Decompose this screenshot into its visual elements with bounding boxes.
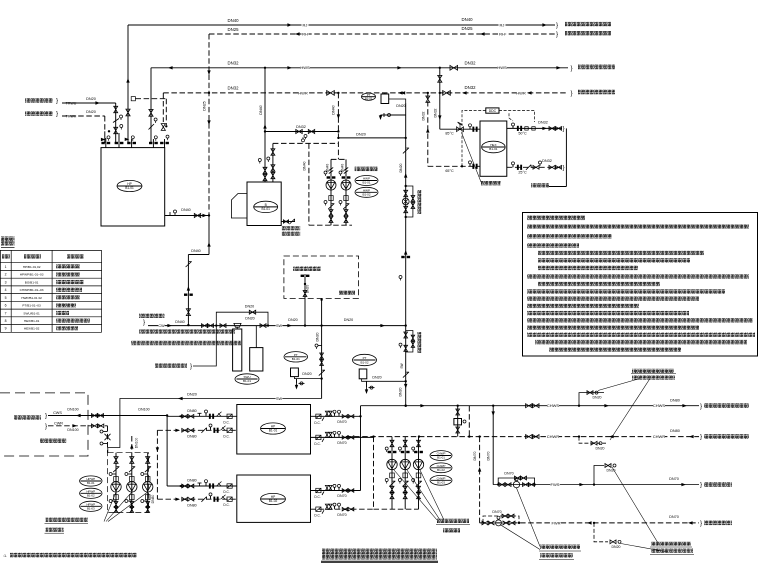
boiler supply riser x=265 from HWS — [264, 68, 266, 182]
svg-text:B1-01: B1-01 — [292, 357, 300, 361]
expansion tank PT/B1-03 at HWR — [362, 93, 376, 100]
expansion tank PT/B1-01 — [284, 352, 308, 362]
notes line 7 — [527, 274, 749, 278]
svg-text:DN100: DN100 — [67, 428, 78, 432]
svg-text:DN32: DN32 — [434, 108, 438, 117]
equipment vacuum gas boiler B/B1-01 box2 — [247, 182, 281, 226]
make-up down leg x=209 solid to DN40 elbow — [208, 216, 210, 255]
inlet label TRWU domestic hot water — [25, 98, 53, 103]
svg-text:50°C: 50°C — [518, 132, 527, 136]
svg-text:DN80: DN80 — [670, 429, 680, 433]
svg-text:DN70: DN70 — [337, 420, 346, 424]
svg-text:HEX/B1-01: HEX/B1-01 — [24, 319, 40, 323]
svg-text:D.C.: D.C. — [223, 420, 229, 424]
softener bypass DN20 — [216, 312, 268, 325]
riser x=440.6 HWS to HEX — [439, 68, 441, 129]
svg-text:4: 4 — [5, 288, 7, 292]
notes line 8 — [538, 282, 660, 286]
svg-text:DN32: DN32 — [228, 61, 240, 66]
pipe CWS to ground loop y=415.5 — [48, 415, 167, 417]
unions at box1 inlet nozzles y=143 — [101, 142, 104, 144]
valve stack column x=151 fittings — [149, 109, 153, 116]
HPWP pump group dashed enclosure — [108, 453, 149, 513]
water softener SWU/B1-01 — [220, 324, 226, 328]
notes line 16 — [535, 340, 747, 344]
ground source room dashed boundary — [0, 393, 88, 456]
bypass valve group DN15 y330-352 — [404, 332, 408, 338]
label drain electric valve + leaders — [632, 369, 674, 373]
riser x=128 from RJ — [127, 25, 129, 143]
notes line 5 — [538, 258, 690, 262]
svg-text:}: } — [700, 403, 702, 410]
notes line 4 — [538, 251, 704, 255]
boiler drain to sewer — [281, 221, 295, 223]
HP return riser DN80 dashed x=157.4 — [156, 430, 158, 499]
FWS pump bypass DN70 — [498, 478, 534, 485]
svg-text:DN25: DN25 — [462, 26, 474, 31]
drawing title HVAC cold/heat source system schematic — [322, 549, 437, 560]
svg-text:}: } — [45, 423, 47, 430]
svg-text:DN40: DN40 — [303, 161, 307, 170]
svg-text:CHWR: CHWR — [547, 434, 560, 439]
svg-text:DN20: DN20 — [372, 375, 381, 379]
svg-text:DN20: DN20 — [86, 110, 96, 114]
svg-text:DN70: DN70 — [669, 477, 679, 481]
pipe RJ supply DN40 y=25 — [128, 24, 555, 26]
notes line 3 — [527, 243, 579, 247]
svg-text:85°C: 85°C — [445, 132, 454, 136]
svg-text:DN40: DN40 — [259, 105, 263, 114]
pipe FWS y=484.6 — [493, 484, 699, 486]
HP1 condenser-side outlet pipe — [311, 415, 361, 417]
svg-text:HWR: HWR — [516, 90, 526, 95]
svg-text:8: 8 — [5, 319, 7, 323]
svg-text:DN70: DN70 — [492, 510, 501, 514]
boiler return drop x=338.4 dashed DN40 — [337, 93, 339, 159]
notes line 11 — [527, 304, 639, 308]
pump tags CHWP/B1-01~03 — [430, 451, 452, 461]
city water inlet CW y=325.6 — [139, 314, 165, 318]
expansion tank PT/B1-02 — [353, 354, 377, 365]
svg-text:DN70: DN70 — [504, 472, 513, 476]
HP2 evaporator-side outlet pipe dashed — [157, 498, 236, 500]
svg-text:DN70: DN70 — [473, 451, 477, 460]
svg-text:DN100: DN100 — [135, 438, 139, 449]
water treatment note text lines — [139, 329, 235, 333]
svg-text:DN20: DN20 — [399, 387, 403, 396]
svg-text:DN80: DN80 — [670, 399, 680, 403]
svg-text:SW: SW — [400, 362, 404, 368]
pipe HWS supply DN32 y=67.8 — [151, 67, 568, 69]
svg-text:B1-01: B1-01 — [261, 207, 270, 211]
svg-text:BG/B1-01: BG/B1-01 — [25, 280, 39, 284]
svg-text:B1-02: B1-02 — [87, 493, 95, 497]
svg-text:HWP/B1-01 02: HWP/B1-01 02 — [21, 296, 42, 300]
PT-01 outlet to riser — [295, 377, 322, 379]
svg-text:B1-02: B1-02 — [362, 192, 370, 196]
svg-text:RJ: RJ — [500, 22, 505, 27]
equipment heat-pump unit HP/B1-01,02 box1 — [101, 148, 165, 226]
svg-text:DN80: DN80 — [187, 435, 196, 439]
svg-text:}: } — [56, 111, 58, 118]
CWR drop with filter to pump suction x=107.5 — [107, 426, 109, 453]
boiler return dashed header y=143.4 — [273, 142, 339, 144]
svg-text:B1-01: B1-01 — [125, 186, 134, 190]
equipment heat pump HP/B1-02 box — [237, 475, 311, 522]
CWR feed dashed stub DN100 into pump box — [131, 436, 133, 453]
svg-text:B1-01: B1-01 — [437, 456, 445, 460]
svg-text:DN100: DN100 — [67, 408, 78, 412]
heater drop pipe x=305 — [304, 274, 306, 326]
svg-text:DN70: DN70 — [669, 515, 679, 519]
junction with SW line — [405, 324, 407, 326]
FWR pump bypass DN70 dashed — [483, 516, 519, 523]
svg-text:DN80: DN80 — [187, 409, 196, 413]
city water branch riser x=188.4 with check valve — [187, 255, 189, 326]
pipe CHWR trunk y=436.6 dashed — [346, 436, 699, 438]
svg-text:D.C.: D.C. — [314, 514, 320, 518]
bypass valve group DN25 y186-217 — [405, 185, 407, 187]
svg-text:B1-03: B1-03 — [87, 506, 95, 510]
svg-text:D.C.: D.C. — [314, 421, 320, 425]
svg-text:B1-01: B1-01 — [489, 147, 498, 151]
FWS drain bypass DN20 — [594, 466, 604, 485]
svg-text:DN32: DN32 — [542, 159, 552, 163]
svg-text:}: } — [45, 413, 47, 420]
notes line 9 — [527, 289, 725, 293]
svg-text:D.C.: D.C. — [223, 503, 229, 507]
svg-text:DN80: DN80 — [151, 495, 155, 504]
svg-text:}: } — [563, 164, 565, 171]
svg-text:DN32: DN32 — [421, 111, 425, 120]
HP1 condenser-side return pipe dashed — [311, 436, 374, 438]
riser x=321.6 SW drop — [321, 300, 323, 399]
CHWS drain bypass DN20 — [579, 393, 604, 406]
legend title tu-li — [1, 237, 15, 246]
svg-text:SW: SW — [276, 324, 283, 328]
svg-text:B1-01: B1-01 — [362, 181, 370, 185]
box1 right outlet pipe to make-up junction y=215.5 — [165, 215, 209, 217]
svg-text:CHWS: CHWS — [653, 403, 666, 408]
svg-text:DN70: DN70 — [487, 451, 491, 460]
notes line 15 — [527, 333, 755, 337]
svg-text:DN20: DN20 — [245, 317, 254, 321]
svg-text:DN32: DN32 — [538, 121, 548, 125]
svg-text:}: } — [563, 126, 565, 133]
HPWP pump columns x3 — [115, 453, 117, 513]
inlet label TRWH — [25, 111, 53, 116]
svg-text:RH: RH — [499, 31, 505, 36]
svg-text:DN20: DN20 — [315, 332, 319, 341]
svg-text:HWR: HWR — [298, 90, 308, 95]
svg-text:65°C: 65°C — [445, 169, 454, 173]
HP2 condenser-side return pipe dashed — [311, 508, 374, 510]
pump tags HWP/B1-01 HWP/B1-02 — [355, 167, 378, 172]
svg-text:CWS: CWS — [53, 411, 62, 415]
svg-text:D.C.: D.C. — [223, 434, 229, 438]
branch from living-water make-up — [155, 363, 187, 367]
svg-text:B1-03: B1-03 — [437, 480, 445, 484]
svg-text:DN70: DN70 — [337, 513, 346, 517]
svg-text:7: 7 — [5, 311, 7, 315]
HP1 evaporator-side outlet pipe dashed — [157, 429, 236, 431]
pipe HWR return DN32 y=92.9 dashed — [163, 92, 568, 94]
HEX hot return dashed y=166.3 65C — [428, 165, 480, 167]
svg-text:6: 6 — [5, 304, 7, 308]
chilled water pumps CHWP 3 columns — [391, 438, 393, 510]
fresh air unit electric heater dashed box — [284, 256, 359, 298]
svg-text:}: } — [571, 65, 573, 72]
boiler bypass line DN32 y=131.5 — [265, 131, 338, 133]
svg-text:D.C.: D.C. — [314, 495, 320, 499]
svg-text:B1-01: B1-01 — [269, 429, 278, 433]
FWR drain bypass DN20 dashed — [594, 523, 608, 542]
svg-text:}: } — [143, 319, 145, 326]
HP2 condenser-side outlet pipe — [311, 490, 361, 492]
svg-text:CW: CW — [158, 324, 165, 328]
svg-text:B1-02: B1-02 — [360, 360, 368, 364]
svg-text:DN80: DN80 — [187, 479, 196, 483]
svg-text:DN20: DN20 — [86, 97, 96, 101]
svg-text:DN20: DN20 — [396, 104, 405, 108]
svg-text:DN40: DN40 — [228, 18, 240, 23]
valve stack column x=115.7 (TRWU) — [115, 103, 117, 143]
svg-text:DN20: DN20 — [344, 318, 353, 322]
svg-text:SW: SW — [276, 397, 283, 401]
make-up riser DN25 dashed x=209 — [208, 34, 210, 216]
riser x=427.8 HWR branch dashed — [427, 93, 429, 166]
svg-text:DN20: DN20 — [302, 372, 311, 376]
svg-text:RH: RH — [302, 31, 308, 36]
pump tags HPWP/B1-01~03 — [80, 476, 102, 486]
svg-text:B1-01: B1-01 — [87, 481, 95, 485]
svg-text:25°C: 25°C — [518, 170, 527, 174]
svg-text:TRWU: TRWU — [66, 102, 77, 106]
svg-text:3: 3 — [5, 280, 7, 284]
pipe RH return DN25 y=34 dashed — [209, 33, 555, 35]
riser CHWS to FWS x=493.2 — [492, 406, 494, 485]
svg-text:9: 9 — [5, 327, 7, 331]
HEX secondary out pipe y=128.4 50C — [507, 127, 562, 129]
HP supply riser x=167.1 — [166, 416, 168, 487]
svg-text:CHWS: CHWS — [547, 403, 560, 408]
svg-text:TRWH: TRWH — [66, 115, 77, 119]
notes line 17 — [549, 347, 681, 351]
HP2 evaporator-side inlet pipe — [167, 485, 237, 487]
svg-text:}: } — [700, 520, 702, 527]
HEX hot-in pipe y=129.2 with 3-way control valve — [440, 128, 480, 130]
svg-text:HWS: HWS — [300, 65, 310, 70]
svg-text:B1-01: B1-01 — [243, 379, 251, 383]
notes text box — [523, 213, 758, 357]
label drain electric valve winter (right) — [651, 542, 691, 546]
riser x=151 from HWS — [150, 68, 152, 143]
svg-text:}: } — [556, 31, 558, 38]
svg-text:SWU/B1-01: SWU/B1-01 — [23, 311, 40, 315]
riser CHWR to FWR x=479.6 dashed — [479, 437, 481, 523]
svg-text:DN20: DN20 — [593, 395, 602, 399]
svg-text::1.: :1. — [3, 554, 7, 558]
svg-text:DN32: DN32 — [228, 86, 240, 91]
svg-text:DN70: DN70 — [337, 441, 346, 445]
svg-text:DN20: DN20 — [612, 545, 621, 549]
svg-text:DN20: DN20 — [245, 305, 254, 309]
make-up water main riser x=405.7 — [405, 103, 407, 406]
valve stack column x=104.8 (TRWH) dashed — [104, 116, 106, 131]
svg-text:DN40: DN40 — [332, 105, 336, 114]
svg-text:DN80: DN80 — [187, 503, 196, 507]
svg-text:5: 5 — [5, 296, 7, 300]
pipe CWR from ground loop y=425.8 dashed — [48, 425, 108, 427]
svg-text:D.C.: D.C. — [314, 442, 320, 446]
pressure differential bypass assembly — [457, 406, 459, 437]
svg-text:}: } — [571, 90, 573, 97]
svg-text:DN20: DN20 — [356, 132, 366, 136]
notes line 13 — [527, 318, 753, 322]
svg-text:FWR: FWR — [551, 520, 560, 525]
svg-text:DN20: DN20 — [187, 392, 197, 396]
HEX secondary return dashed y=167.3 25C — [507, 166, 562, 168]
svg-text:DN20: DN20 — [288, 318, 297, 322]
softened make-up to HEX loop x=566.4 — [565, 128, 567, 186]
riser CHWR to HP units x=373.5 dashed — [373, 437, 375, 510]
pipe CHWS trunk y=405.7 — [361, 405, 700, 407]
HEX unit HEX/B1-01 — [480, 121, 507, 176]
svg-text:B1-02: B1-02 — [269, 499, 278, 503]
svg-text:DN20: DN20 — [596, 447, 605, 451]
DDC controller — [486, 108, 499, 113]
CHWR drain bypass DN20 — [579, 437, 606, 444]
svg-text:}: } — [56, 98, 58, 105]
svg-text:DN25: DN25 — [203, 101, 207, 110]
svg-text:DN40: DN40 — [175, 320, 184, 324]
svg-text:}: } — [700, 434, 702, 441]
boiler return riser x=272.9 to dashed header — [272, 143, 274, 182]
svg-text:CHWP/B1-01~03: CHWP/B1-01~03 — [20, 288, 44, 292]
svg-text:DN25: DN25 — [228, 27, 240, 32]
svg-text:CHWR: CHWR — [653, 434, 666, 439]
svg-text:HEX/B1-02: HEX/B1-02 — [24, 327, 40, 331]
svg-text:HWS: HWS — [497, 65, 507, 70]
make-up DN20 drop from tank — [389, 99, 406, 103]
svg-text:DN40: DN40 — [462, 17, 474, 22]
label ground-side pumps 2+1 standby with leaders — [46, 518, 88, 522]
dashed column x=163.3 from HWR — [162, 93, 164, 122]
pump suction dashed x=308.9 DN40 — [308, 143, 310, 225]
svg-text:DN40: DN40 — [191, 249, 200, 253]
svg-text:}: } — [556, 22, 558, 29]
svg-text:B1-02: B1-02 — [437, 468, 445, 472]
svg-text:RJ: RJ — [303, 22, 308, 27]
svg-text:DN100: DN100 — [138, 408, 149, 412]
gauge branch with drain arrow — [384, 114, 406, 116]
svg-text:HPWP/B1-01~03: HPWP/B1-01~03 — [20, 273, 44, 277]
svg-text:DN70: DN70 — [337, 494, 346, 498]
HP1 evaporator-side inlet pipe — [167, 415, 237, 417]
notes line 1 — [527, 224, 749, 228]
SW make-up long line y=398.5 — [108, 399, 322, 453]
label CHWP pumps 2+1 standby with leaders — [437, 519, 469, 523]
notes line 14 — [527, 325, 699, 329]
svg-text:DN32: DN32 — [296, 125, 306, 129]
riser CHWS to HP units x=360.5 — [360, 406, 362, 491]
recirculation square sensor + dashed branch — [131, 97, 135, 101]
svg-text:HP/B1-01,02: HP/B1-01,02 — [23, 265, 41, 269]
svg-text:DN32: DN32 — [465, 85, 477, 90]
svg-text:}: } — [700, 482, 702, 489]
notes line 12 — [527, 311, 689, 315]
svg-text:DN20: DN20 — [399, 163, 403, 172]
pipe FWR y=522.9 dashed — [480, 522, 699, 524]
make-up line DN20 y=137.9 — [338, 137, 405, 139]
notes line 2 — [527, 234, 612, 238]
valve stack column x=128 fittings — [126, 109, 130, 116]
legend table — [0, 249, 102, 251]
label electric control valve with leader — [481, 181, 501, 185]
svg-text:1: 1 — [5, 265, 7, 269]
notes line 6 — [538, 266, 638, 270]
svg-text:PT/B1-01~03: PT/B1-01~03 — [22, 304, 41, 308]
svg-text:2: 2 — [5, 273, 7, 277]
svg-text:DN32: DN32 — [465, 60, 477, 65]
equipment heat pump HP/B1-01 box — [237, 405, 311, 455]
svg-text:DDC: DDC — [489, 109, 497, 113]
svg-text:CWR: CWR — [54, 422, 63, 426]
label electric regulating valve seasonal — [540, 545, 580, 549]
svg-text:D.C.: D.C. — [223, 490, 229, 494]
svg-text:}: } — [190, 363, 192, 370]
notes line 10 — [527, 297, 699, 301]
boiler circulating pumps HWP columns — [331, 158, 346, 160]
svg-text:FWS: FWS — [551, 482, 560, 487]
svg-text:DN40: DN40 — [181, 208, 190, 212]
